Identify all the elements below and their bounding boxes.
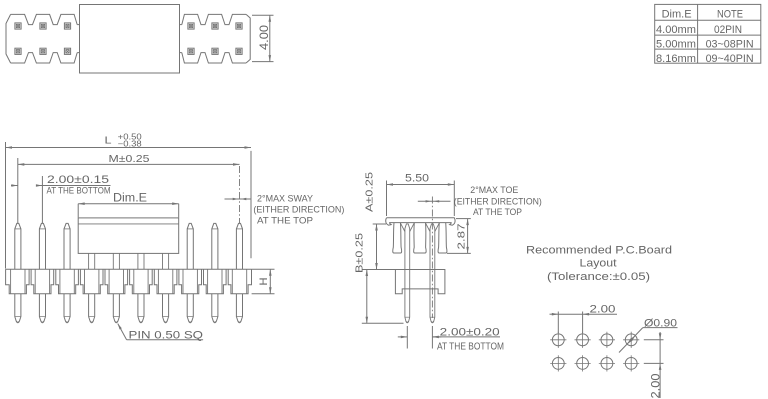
pcb hole xyxy=(623,332,639,348)
side view: cap funnel edges around pin xyxy=(400,223,414,232)
front view: pick-up cap (Dim.E body) xyxy=(78,218,179,254)
dimension 2.00 vertical (row pitch) xyxy=(644,332,664,399)
table row 8.16mm / 09~40PIN xyxy=(656,53,754,65)
svg-text:Recommended P.C.Board: Recommended P.C.Board xyxy=(526,245,672,257)
svg-text:PIN 0.50 SQ: PIN 0.50 SQ xyxy=(129,329,204,341)
side view: centerline of rear pin xyxy=(431,197,433,319)
dimension H (base height) xyxy=(252,269,275,293)
svg-text:Ø0.90: Ø0.90 xyxy=(644,317,677,329)
table row 5.00mm / 03~08PIN xyxy=(656,39,754,51)
svg-text:H: H xyxy=(258,277,270,285)
side view: cap retention claw wall xyxy=(414,223,426,253)
svg-text:Dim.E: Dim.E xyxy=(113,193,147,205)
dimension A±0.25 (cap to base height) xyxy=(363,172,396,270)
top view pin contact xyxy=(188,23,194,29)
svg-text:2.00: 2.00 xyxy=(590,304,616,316)
dimension L +0.50/-0.38 (overall length) xyxy=(6,133,252,269)
front view: lower pins (solder tails) xyxy=(15,294,21,323)
top view pin contact xyxy=(15,48,21,54)
svg-text:AT THE BOTTOM: AT THE BOTTOM xyxy=(47,186,111,197)
svg-text:2°MAX SWAY: 2°MAX SWAY xyxy=(257,193,314,204)
top view pin contact xyxy=(15,23,21,29)
top view: right pin strip outline xyxy=(180,24,182,26)
svg-text:AT THE TOP: AT THE TOP xyxy=(257,216,313,227)
svg-text:AT THE BOTTOM: AT THE BOTTOM xyxy=(437,342,504,353)
table header row xyxy=(662,9,743,21)
dimension 4.00 (top view strip height) xyxy=(252,15,274,61)
svg-text:Layout: Layout xyxy=(580,258,617,270)
svg-text:03~08PIN: 03~08PIN xyxy=(706,39,754,51)
pcb hole xyxy=(599,332,615,348)
svg-text:2.00: 2.00 xyxy=(650,374,662,399)
svg-text:(Tolerance:±0.05): (Tolerance:±0.05) xyxy=(547,271,650,283)
svg-text:4.00: 4.00 xyxy=(259,25,271,50)
svg-text:2.87: 2.87 xyxy=(455,223,467,249)
svg-text:NOTE: NOTE xyxy=(717,9,743,21)
front view: upper pins (bare) xyxy=(15,223,21,269)
dimension 2.00±0.20 AT THE BOTTOM (row pitch) xyxy=(398,326,504,353)
svg-text:2°MAX TOE: 2°MAX TOE xyxy=(470,185,518,196)
note: 2 deg MAX TOE at top of side view xyxy=(418,185,542,218)
pcb hole xyxy=(575,355,591,371)
dimension B±0.25 (base to pin tip) xyxy=(354,233,404,323)
svg-text:−0.38: −0.38 xyxy=(118,139,143,148)
svg-text:09~40PIN: 09~40PIN xyxy=(706,53,754,65)
svg-text:4.00mm: 4.00mm xyxy=(656,24,696,36)
svg-text:2.00±0.15: 2.00±0.15 xyxy=(47,174,109,186)
dimension M±0.25 (pin span) xyxy=(18,153,240,223)
pcb hole xyxy=(575,332,591,348)
pcb hole xyxy=(623,355,639,371)
table: Dim.E / NOTE xyxy=(655,4,761,63)
top view pin contact xyxy=(236,48,242,54)
svg-text:(EITHER DIRECTION): (EITHER DIRECTION) xyxy=(454,196,542,207)
side view: cap retention claw wall xyxy=(438,223,447,253)
top view: left pin strip outline xyxy=(11,14,78,24)
svg-text:8.16mm: 8.16mm xyxy=(656,53,696,65)
top view pin contact xyxy=(64,48,70,54)
note: 2 deg MAX SWAY at top of front view xyxy=(225,166,345,227)
top view pin contact xyxy=(40,23,46,29)
top view pin contact xyxy=(212,23,218,29)
side view: cap funnel edges around pin xyxy=(425,223,439,232)
svg-text:B±0.25: B±0.25 xyxy=(354,233,366,273)
top view pin contact xyxy=(236,23,242,29)
dimension 5.50 (cap width, side view) xyxy=(387,172,455,216)
svg-text:5.50: 5.50 xyxy=(405,172,429,184)
svg-text:5.00mm: 5.00mm xyxy=(656,39,696,51)
top view pin contact xyxy=(40,48,46,54)
svg-text:L: L xyxy=(105,135,112,147)
note: PIN 0.50 SQ with leader xyxy=(118,323,204,341)
pcb hole xyxy=(599,355,615,371)
dimension 2.87 (cap height) xyxy=(447,219,471,254)
side view: pick-up cap flange xyxy=(386,218,455,225)
svg-text:(EITHER DIRECTION): (EITHER DIRECTION) xyxy=(253,205,344,216)
dimension 2.00±0.15 AT THE BOTTOM (pin pitch) xyxy=(11,174,111,223)
svg-text:02PIN: 02PIN xyxy=(714,24,742,36)
side view: pin bodies and solder tails xyxy=(405,231,410,323)
svg-text:AT THE TOP: AT THE TOP xyxy=(473,207,522,218)
svg-text:Dim.E: Dim.E xyxy=(662,9,692,21)
pcb hole xyxy=(550,332,566,348)
dimension Dim.E (cap length) xyxy=(78,193,179,218)
svg-text:2.00±0.20: 2.00±0.20 xyxy=(440,327,500,339)
front view: header base insulator strip xyxy=(6,269,252,293)
dimension diameter 0.90 (hole size) with leader xyxy=(619,317,678,352)
side view: base insulator block xyxy=(395,270,445,294)
top view: connector body rectangle xyxy=(80,5,180,74)
pcb hole xyxy=(550,355,566,371)
side view: pins through cap (tips) xyxy=(405,224,410,231)
dimension 2.00 horizontal (hole pitch) xyxy=(550,304,618,333)
table row 4.00mm / 02PIN xyxy=(656,24,742,36)
top view pin contact xyxy=(64,23,70,29)
front view: pin stubs under cap xyxy=(89,253,95,269)
svg-text:A±0.25: A±0.25 xyxy=(364,172,376,212)
top view pin contact xyxy=(212,48,218,54)
top view pin contact xyxy=(188,48,194,54)
side view: cap retention claw wall xyxy=(393,223,402,253)
svg-text:M±0.25: M±0.25 xyxy=(109,153,150,165)
note: Recommended P.C.Board Layout xyxy=(526,245,672,284)
